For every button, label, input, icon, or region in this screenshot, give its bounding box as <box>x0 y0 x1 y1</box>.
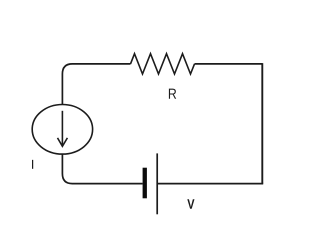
label V (battery) <box>187 199 194 208</box>
resistor R zigzag <box>131 54 195 74</box>
battery V: long plate (positive terminal) <box>156 153 158 214</box>
current source arrow shaft (pointing down) <box>61 111 63 146</box>
label R (resistor) <box>169 89 176 99</box>
wire: left vertical from current source top, rounded top-left corner, into top run <box>62 64 130 105</box>
wire: bottom horizontal from rounded bottom-left corner to battery thick plate <box>62 154 142 184</box>
battery V: short thick plate (negative terminal) <box>143 168 147 199</box>
wire: bottom horizontal from battery long plate to bottom-right corner <box>157 183 263 185</box>
wire: right vertical with sharp corners top-right and bottom-right <box>261 63 263 184</box>
wire: top horizontal right of resistor <box>195 63 263 65</box>
label I (current source) <box>32 160 33 169</box>
current source I: ellipse body <box>32 105 92 155</box>
current source arrowhead <box>58 138 68 146</box>
